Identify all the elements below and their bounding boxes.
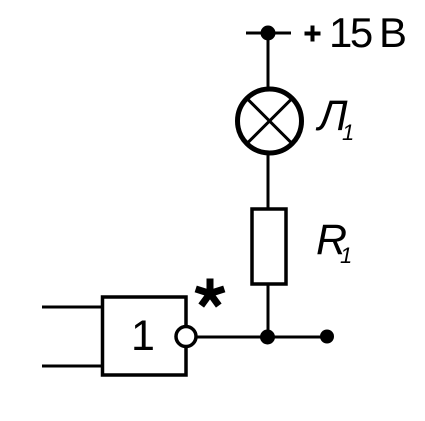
resistor R1 [252, 209, 286, 284]
asterisk open-collector mark [196, 279, 225, 306]
svg-text:15: 15 [329, 9, 372, 56]
svg-text:1: 1 [342, 120, 354, 145]
wire supply horizontal [246, 32, 291, 35]
node output terminal [320, 330, 334, 344]
gate U1 box [103, 297, 187, 375]
wire gate output [197, 336, 327, 339]
label R1 [316, 216, 352, 268]
node +15V terminal [261, 26, 276, 41]
svg-text:1: 1 [131, 312, 155, 360]
label L1 [315, 92, 354, 145]
lamp L1 [238, 89, 302, 153]
wire from supply to lamp [267, 33, 270, 90]
wire from resistor to output node [267, 284, 270, 337]
wire gate input top [42, 306, 103, 309]
gate output inversion bubble [176, 327, 196, 347]
wire from lamp to resistor [267, 153, 270, 210]
node output junction [260, 330, 275, 345]
label +15 B plus sign [305, 26, 321, 42]
svg-text:В: В [379, 9, 407, 56]
svg-text:1: 1 [340, 243, 352, 268]
wire gate input bottom [42, 365, 103, 368]
